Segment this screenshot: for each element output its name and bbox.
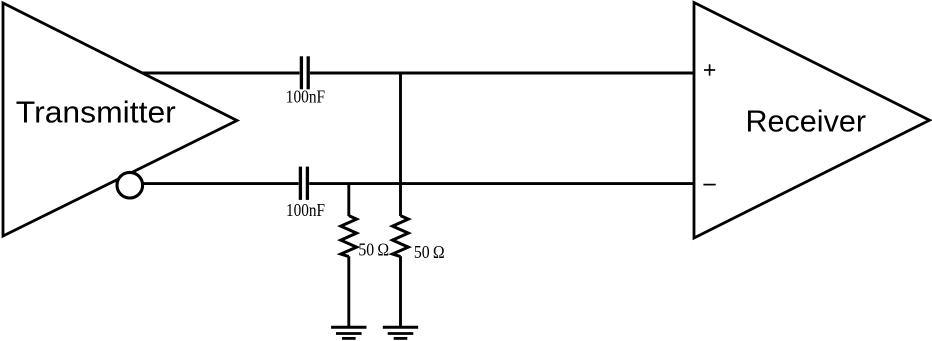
wire bottom from bubble to C2 (144, 182, 299, 185)
svg-text:Transmitter: Transmitter (16, 95, 176, 130)
transmitter driver triangle (3, 3, 237, 236)
wire vertical from top wire to R2 crossing bottom wire (399, 73, 402, 216)
ground (left) (331, 327, 366, 338)
wire vertical stub from bottom wire to R1 (347, 184, 350, 216)
wire bottom from C2 to receiver (309, 182, 694, 185)
receiver triangle (694, 3, 930, 239)
svg-text:50 Ω: 50 Ω (358, 240, 389, 260)
svg-text:100nF: 100nF (286, 87, 325, 107)
capacitor C2 100nF (300, 167, 307, 200)
wire top from C1 to receiver (310, 72, 694, 75)
svg-text:50 Ω: 50 Ω (414, 242, 445, 262)
resistor R2 50 ohm (393, 216, 409, 257)
ground (right) (383, 327, 418, 338)
pin label minus (703, 184, 715, 186)
capacitor C1 100nF (301, 56, 308, 89)
inverting output bubble (117, 172, 143, 198)
svg-text:100nF: 100nF (286, 200, 325, 220)
wire from R2 to ground (399, 256, 402, 327)
wire top from transmitter to C1 (142, 72, 300, 75)
wire from R1 to ground (347, 256, 350, 327)
resistor R1 50 ohm (341, 216, 357, 257)
pin label plus (704, 64, 715, 75)
svg-text:Receiver: Receiver (746, 103, 867, 138)
